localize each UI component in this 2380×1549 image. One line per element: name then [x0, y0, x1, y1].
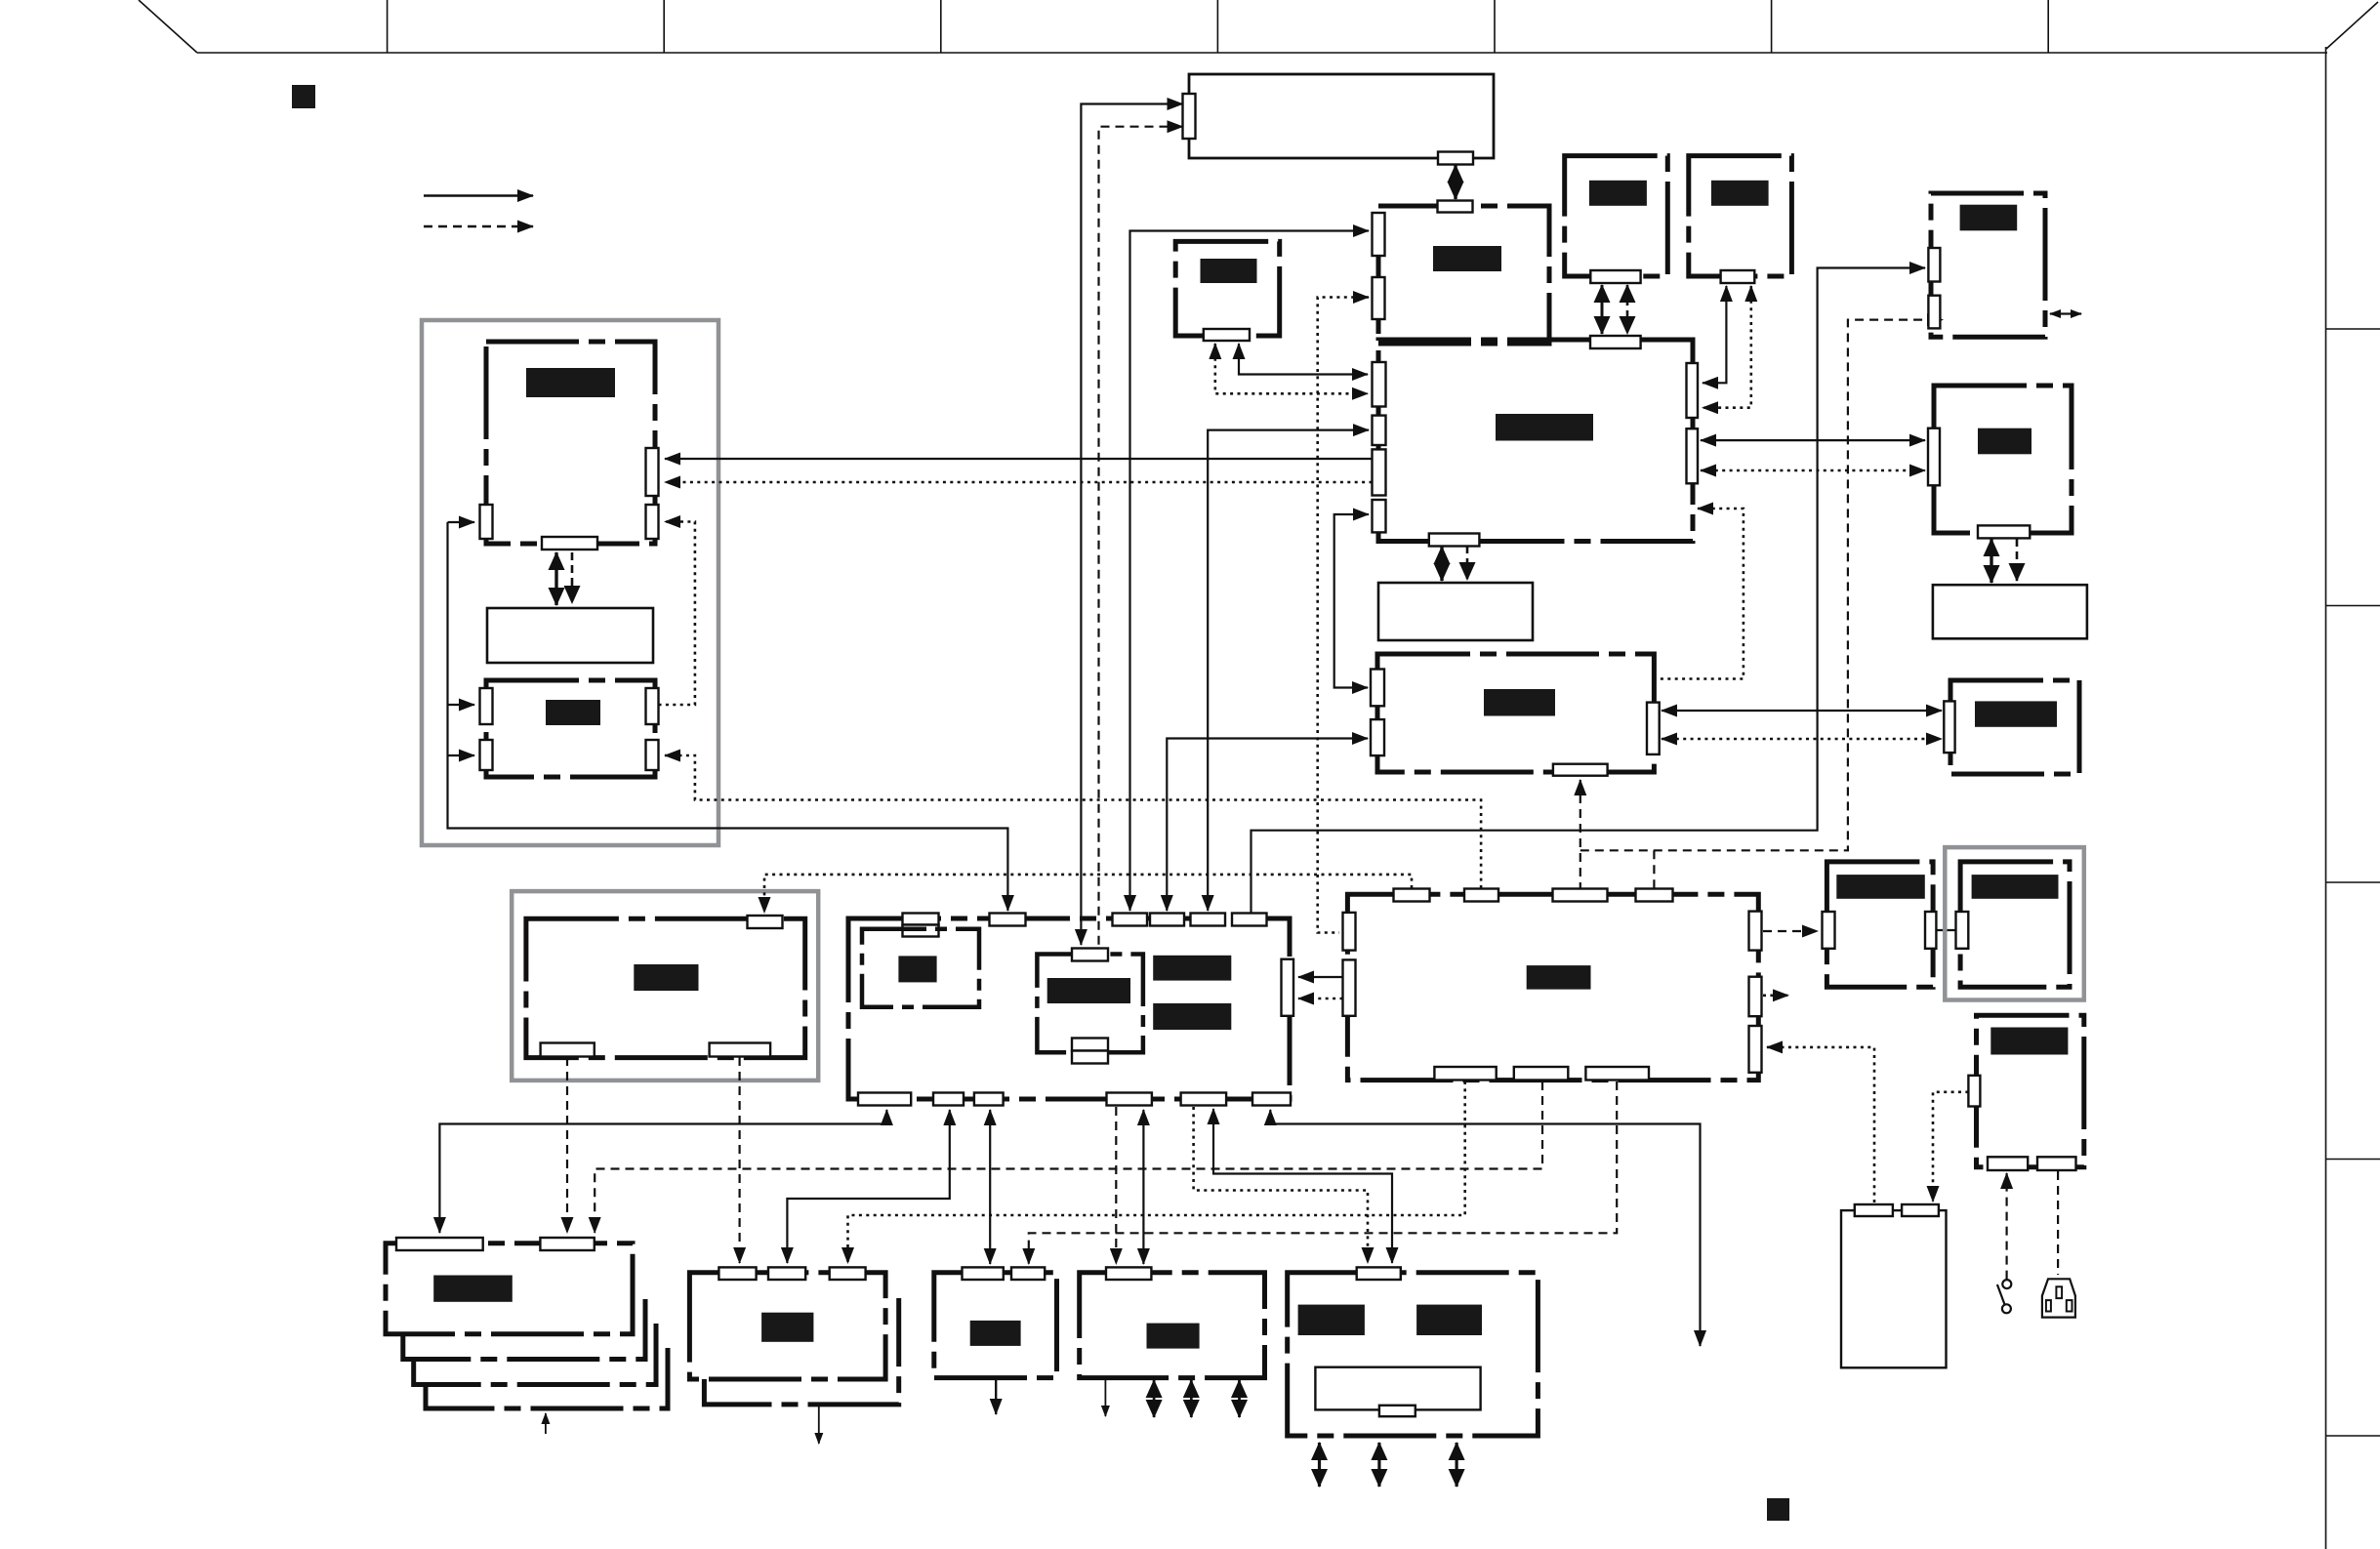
connector SB bottom: [1204, 329, 1250, 341]
block A: [1565, 156, 1668, 276]
wire L5 dotted right block bc1 to bottom-middle block c3: [848, 1081, 1465, 1263]
wire long dotted from MID box c3 to G1A right upper: [665, 481, 1373, 484]
bottom block 3: [1080, 1273, 1265, 1378]
label of MID block: [1496, 414, 1593, 441]
connector RB right r1: [1749, 912, 1762, 951]
page border: top-left diagonal: [139, 0, 197, 53]
connector G1B right upper: [646, 688, 659, 724]
inner block IB2: [1037, 955, 1143, 1053]
label of LRB: [1990, 1028, 2068, 1055]
dotted wire G1B right upper to G1A right lower: [659, 522, 695, 706]
bottom-middle block: [689, 1273, 885, 1379]
label 2 of bottom block 4: [1416, 1305, 1482, 1335]
connector MID bottom: [1429, 534, 1480, 547]
pair block BP2: [1960, 862, 2070, 987]
connector TR1 left upper: [1928, 248, 1940, 282]
block G1B: [486, 680, 655, 777]
thin down arrow from bottom-middle block: [818, 1406, 820, 1444]
connector MID left c3: [1373, 449, 1386, 495]
connector center bottom cb5: [1181, 1093, 1227, 1106]
switch contact circle lower: [2002, 1304, 2011, 1313]
connector G2 bottom right: [710, 1043, 771, 1057]
double arrow block A to MID top connector dashed: [1626, 285, 1629, 334]
dashed net horizontal run to TR1: [1580, 320, 1943, 851]
connector lower block bottom: [1553, 764, 1608, 776]
connector G1A bottom: [542, 537, 597, 550]
bottom block 4: [1288, 1273, 1539, 1436]
wire long solid from MID box c3 to G1A right upper: [665, 458, 1373, 460]
connector center top ct6: [1232, 914, 1267, 926]
label center right 1: [1153, 956, 1231, 981]
connector BP1 left: [1823, 912, 1835, 949]
gray frame 1 (left enclosure): [422, 320, 718, 845]
wire BP1 to BP2: [1936, 929, 1956, 931]
connector top block bottom: [1438, 152, 1473, 165]
label of G1B: [546, 700, 600, 725]
label of small block SB: [1201, 259, 1257, 283]
dotted wire from right block top connector 2 to G1B right lower: [665, 755, 1481, 888]
label of lower block: [1484, 689, 1555, 716]
inner block IB1: [862, 929, 979, 1007]
stacked copy 3 of bottom block 1: [414, 1324, 656, 1385]
label of right block RB: [1527, 965, 1591, 990]
upper block: [1378, 206, 1549, 344]
dashed arrow MID bottom to plain block P2: [1466, 546, 1469, 580]
connector block A bottom: [1590, 270, 1640, 283]
connector bottom-middle c2: [768, 1267, 805, 1280]
wire dashed top block to inner box IB2 top connector: [1099, 127, 1183, 948]
bottom block 2: [934, 1273, 1057, 1378]
connector LRB left: [1968, 1076, 1980, 1107]
page border: top band separators: [388, 0, 2049, 53]
wire solid upper block c1 to center box ct3: [1130, 231, 1370, 912]
connector center top ct1a: [903, 914, 939, 925]
connector center bottom cb3: [974, 1093, 1004, 1106]
stacked copy 2 of bottom block 1: [403, 1299, 645, 1360]
connector G1B left lower: [480, 740, 493, 770]
wire solid MID r2 to right column second block: [1701, 439, 1925, 441]
connector lower block right: [1647, 703, 1660, 754]
connector battery 2: [1902, 1204, 1939, 1216]
connector G2 bottom left: [541, 1043, 595, 1057]
right block RB: [1347, 894, 1758, 1080]
dashed arrow SR to plain block P3: [2016, 539, 2019, 581]
wire: branch arrow into G1B left upper connector: [448, 704, 475, 706]
dashed net drop to right block tc4: [1653, 850, 1655, 888]
MID block: [1378, 340, 1693, 542]
gray frame around BP2: [1945, 847, 2084, 999]
battery block: [1841, 1210, 1947, 1367]
connector G2 top: [748, 916, 783, 928]
down arrow from bottom block 2: [995, 1378, 997, 1414]
connector G1A right upper: [646, 448, 659, 496]
connector IB2 top: [1072, 949, 1108, 961]
connector B3R left: [1944, 701, 1954, 753]
label of bottom block 1: [433, 1276, 513, 1302]
connector center top ct1b: [903, 925, 939, 937]
dashed wire switch to LRB bottom 1: [2006, 1173, 2008, 1280]
page border: top band line: [197, 52, 2327, 54]
connector RB top tc2: [1464, 889, 1498, 902]
connector MID top: [1590, 336, 1641, 348]
wire MID c4 to lower block c1: [1334, 514, 1369, 688]
dashed net: lower block bottom / right block tc3 / TR1 lower-left connector: [1580, 780, 1581, 888]
stacked copy 4 of bottom block 1: [426, 1348, 668, 1408]
label of block B: [1711, 181, 1769, 206]
dotted wire LRB left to battery connector 2: [1933, 1092, 1968, 1202]
double arrow out of TR1 right edge: [2050, 312, 2081, 314]
plain block P3: [1933, 585, 2087, 638]
connector bottom block 1 c1: [396, 1238, 483, 1250]
double arrow 1 below bottom block 3: [1153, 1380, 1156, 1417]
thin up arrow into bottom block 1 stack: [545, 1413, 547, 1434]
connector upper block top: [1438, 201, 1473, 213]
legend black square: [292, 85, 315, 108]
thin down arrow from bottom block 3: [1104, 1378, 1106, 1416]
connector G1A right lower: [646, 505, 659, 539]
connector bottom block 1 c2: [540, 1238, 594, 1250]
wire dashed SB to MID c1: [1215, 344, 1368, 393]
dotted stub arrow from RB r2: [1763, 994, 1788, 997]
connector bottom block 3 top: [1106, 1267, 1151, 1280]
wire dotted upper block c2 to right block upper-left connector (long vertical): [1318, 298, 1369, 933]
label of SR: [1978, 428, 2031, 455]
legend dashed arrow: [424, 225, 533, 228]
label of IB2: [1047, 978, 1130, 1003]
connector center bottom cb2: [933, 1093, 964, 1106]
dotted wire right block tc1 to G2 top connector: [764, 875, 1412, 913]
connector of inner plain block: [1379, 1406, 1416, 1416]
block G1A: [486, 342, 655, 544]
double arrow top block to upper block: [1454, 165, 1457, 199]
wire solid block B to MID right connector r1: [1703, 286, 1726, 383]
label of G1A: [526, 368, 615, 397]
switch lever: [1997, 1284, 2005, 1305]
dashed wire LRB bottom 2 to plug: [2057, 1171, 2059, 1275]
wire solid top block to inner box IB2 top connector: [1081, 104, 1182, 946]
wire: feed bus to G1A and G1B and down to center box connector: [448, 522, 1008, 911]
page border: top-right diagonal: [2326, 2, 2378, 49]
inner plain block of bottom block 4: [1315, 1367, 1480, 1410]
label of G2: [634, 964, 698, 991]
connector IB2 bottom upper: [1072, 1039, 1108, 1051]
connector bottom block 2 c1: [963, 1267, 1004, 1280]
dashed wire G2 bottom-right down to bottom-middle block: [738, 1057, 740, 1263]
connector MID right r1: [1687, 363, 1699, 418]
bottom-right black square: [1767, 1498, 1789, 1521]
wire: branch arrow into G1B left lower connector: [448, 754, 475, 756]
connector center top ct5: [1191, 914, 1226, 926]
wire dashed MID r2 to right column second block: [1701, 469, 1925, 472]
connector LRB bottom 1: [1988, 1157, 2028, 1170]
label of bottom-middle block: [761, 1313, 813, 1342]
wire L6 center cb6 to lone down arrow: [1270, 1110, 1700, 1346]
top-right block TR1: [1931, 193, 2045, 337]
connector MID left c1: [1373, 362, 1386, 407]
dashed wire center cb4 to bottom block 3 c1: [1115, 1107, 1117, 1264]
wire L1 bottom block 1 to center cb1: [439, 1110, 886, 1233]
plain block P2: [1378, 583, 1533, 640]
connector RB top tc1: [1394, 889, 1430, 902]
connector center top ct2: [990, 914, 1026, 926]
page border: right vertical rule: [2325, 47, 2327, 1549]
connector center bottom cb6: [1252, 1093, 1291, 1106]
plug pin left: [2046, 1300, 2051, 1311]
switch contact circle upper: [2002, 1280, 2011, 1288]
label of upper block: [1433, 246, 1501, 271]
bottom block 1 (stacked): [386, 1243, 633, 1334]
double arrow MID bottom to plain block P2 solid: [1440, 547, 1443, 581]
legend solid arrow: [424, 194, 533, 197]
wire dashed lower block right to third right block: [1662, 738, 1942, 741]
label of IB1: [898, 956, 936, 982]
wire solid center cb5 to bottom block 4 c1: [1213, 1109, 1392, 1263]
stacked copy of bottom-middle block: [704, 1298, 898, 1405]
connector RB left lower: [1343, 959, 1356, 1015]
connector BP2 left: [1956, 912, 1969, 949]
wire lower block c2 to center box ct4: [1167, 739, 1368, 912]
connector G1B left upper: [480, 688, 493, 724]
label of BP2: [1972, 875, 2059, 899]
connector RB top tc4: [1636, 889, 1673, 902]
connector RB bottom bc1: [1434, 1067, 1496, 1080]
plug pin right: [2067, 1300, 2072, 1311]
connector block B bottom: [1721, 270, 1755, 283]
label of bottom block 3: [1147, 1324, 1200, 1349]
wire solid right block to center right connector: [1298, 976, 1343, 978]
connector G1B right lower: [646, 740, 659, 770]
connector bottom-middle c1: [718, 1267, 756, 1280]
top block (plain rectangle): [1189, 74, 1494, 158]
connector lower block left c1: [1371, 670, 1384, 707]
connector upper block left 1: [1373, 213, 1385, 256]
label center right 2: [1153, 1003, 1231, 1030]
label of TR1: [1960, 205, 2018, 231]
connector bottom block 4 top: [1357, 1267, 1401, 1280]
label of BP1: [1836, 875, 1925, 899]
lower block: [1377, 654, 1654, 772]
connector center bottom cb4: [1107, 1093, 1152, 1106]
wire L2 dashed right block bc2 to bottom block 1 c2: [595, 1081, 1542, 1233]
connector battery 1: [1855, 1204, 1893, 1216]
label of bottom block 2: [970, 1321, 1021, 1346]
connector MID right r2: [1687, 428, 1699, 483]
connector RB top tc3: [1553, 889, 1608, 902]
connector BP1 right: [1925, 912, 1936, 949]
block B: [1689, 156, 1792, 276]
connector RB right r3: [1749, 1026, 1762, 1073]
double arrow 3 below bottom block 4: [1455, 1443, 1457, 1487]
label of block A: [1589, 181, 1647, 206]
connector top block left: [1183, 94, 1196, 139]
dashed wire G2 bottom-left down to bottom block 1: [566, 1057, 568, 1233]
label of B3R: [1975, 701, 2057, 726]
wire dashed block B to MID right connector r1: [1703, 286, 1751, 408]
connector TR1 left lower: [1928, 296, 1940, 329]
lower-right block LRB: [1977, 1015, 2084, 1166]
connector lower block left c2: [1371, 719, 1384, 755]
connector SR left: [1928, 428, 1940, 486]
wire dashed right block to center right connector: [1298, 998, 1343, 1000]
connector center bottom cb1: [858, 1093, 911, 1106]
wire center cb4 to bottom block 3 c1 solid: [1142, 1110, 1144, 1264]
wire L3 bottom-middle block c2 to center cb2: [787, 1110, 949, 1263]
wire L4 dashed right block bc3 to bottom block 2 c2: [1029, 1081, 1617, 1264]
center block: [848, 918, 1290, 1099]
connector center right: [1282, 959, 1294, 1016]
double arrow 1 below bottom block 4: [1318, 1443, 1321, 1487]
dashed arrow G1A to G1C: [571, 552, 574, 603]
wire solid lower block right to third right block: [1662, 710, 1942, 712]
connector upper block left 2: [1373, 277, 1385, 319]
wire: branch arrow into G1A left connector: [448, 521, 475, 523]
wire MID c2 to center box ct5: [1208, 430, 1369, 911]
third right block B3R: [1950, 680, 2079, 774]
connector bottom block 2 c2: [1011, 1267, 1045, 1280]
dashed wire RB r1 to pair block BP1: [1763, 930, 1818, 932]
page border: right edge tick marks: [2326, 329, 2380, 1436]
dotted wire center cb5 to bottom block 4 c1: [1194, 1107, 1368, 1263]
block G1C (plain): [487, 608, 653, 663]
double arrow block A to MID top connector solid: [1601, 285, 1604, 334]
second right block SR: [1934, 386, 2072, 533]
connector MID left c4: [1373, 500, 1386, 532]
block G2: [526, 918, 805, 1057]
plug pin top: [2056, 1286, 2062, 1298]
connector center top ct4: [1150, 914, 1184, 926]
pair block BP1: [1826, 862, 1933, 987]
wire dotted into MID right edge from lower block corner: [1657, 509, 1744, 679]
dotted wire battery to RB r3: [1767, 1047, 1874, 1203]
wire solid SB to MID c1: [1239, 344, 1368, 375]
connector MID left c2: [1373, 416, 1386, 445]
connector RB left upper: [1343, 913, 1356, 951]
label 1 of bottom block 4: [1298, 1305, 1365, 1335]
connector bottom-middle c3: [830, 1267, 866, 1280]
connector LRB bottom 2: [2037, 1157, 2076, 1170]
small block SB: [1175, 241, 1280, 336]
connector RB bottom bc3: [1585, 1067, 1649, 1080]
connector RB bottom bc2: [1514, 1067, 1569, 1080]
connector IB2 bottom lower: [1072, 1051, 1108, 1064]
connector RB right r2: [1749, 977, 1762, 1016]
connector center top ct3: [1113, 914, 1148, 926]
gray frame 2 (lower-left enclosure): [512, 891, 818, 1080]
double arrow 2 below bottom block 4: [1377, 1443, 1380, 1487]
double arrow SR to plain block P3 solid: [1990, 539, 1992, 583]
wire center cb3 to bottom block 2 c1: [989, 1110, 991, 1264]
double arrow 2 below bottom block 3: [1190, 1380, 1193, 1417]
wire center ct6 to TR1 top-left connector: [1252, 268, 1926, 916]
connector SR bottom: [1978, 525, 2030, 538]
double arrow G1A to G1C solid: [554, 552, 557, 605]
double arrow 3 below bottom block 3: [1238, 1380, 1241, 1417]
plug outline: [2042, 1279, 2075, 1317]
connector G1A left: [480, 505, 493, 539]
